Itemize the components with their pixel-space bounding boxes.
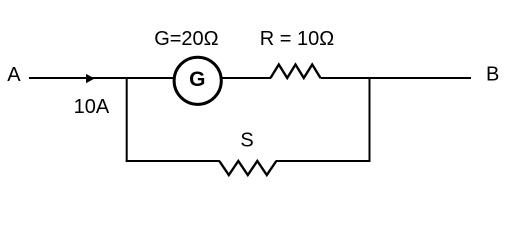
svg-text:S: S — [240, 130, 253, 152]
wire left branch vertical — [126, 77, 128, 162]
svg-text:R = 10Ω: R = 10Ω — [260, 28, 334, 50]
resistor R — [271, 65, 321, 79]
svg-text:B: B — [486, 64, 499, 86]
svg-text:A: A — [7, 64, 21, 86]
svg-text:10A: 10A — [74, 96, 110, 118]
svg-text:G: G — [189, 68, 205, 91]
wire A to left junction — [29, 77, 174, 79]
wire bottom right — [276, 160, 371, 162]
resistor S — [219, 161, 276, 175]
svg-text:G=20Ω: G=20Ω — [154, 28, 218, 50]
wire right branch vertical — [369, 77, 371, 162]
wire G to R — [222, 77, 271, 79]
wire R to node B — [321, 77, 472, 79]
wire bottom left — [126, 160, 220, 162]
current arrow — [86, 74, 95, 83]
galvanometer U1 — [174, 57, 221, 104]
